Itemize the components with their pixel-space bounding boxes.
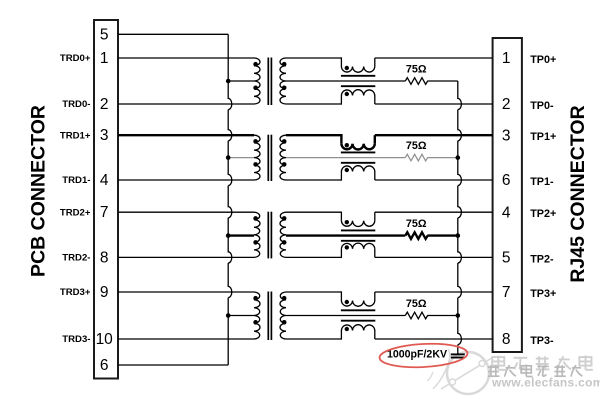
svg-text:6: 6 [100,357,109,374]
svg-text:TRD2-: TRD2- [62,253,90,264]
svg-text:75Ω: 75Ω [406,298,427,310]
svg-text:1: 1 [100,50,109,67]
svg-text:5: 5 [100,26,109,43]
svg-text:9: 9 [100,284,109,301]
svg-text:3: 3 [100,127,109,144]
svg-text:5: 5 [502,250,511,267]
svg-text:8: 8 [502,331,511,348]
svg-text:TRD1-: TRD1- [62,175,90,186]
svg-text:7: 7 [100,204,109,221]
svg-text:TP2+: TP2+ [530,208,556,220]
svg-text:TRD2+: TRD2+ [60,207,91,218]
svg-text:6: 6 [502,172,511,189]
svg-text:www.elecfans.com: www.elecfans.com [491,376,600,390]
svg-text:TP0-: TP0- [530,100,554,112]
svg-text:TRD3-: TRD3- [62,334,90,345]
svg-text:TP0+: TP0+ [530,54,556,66]
svg-text:2: 2 [100,96,109,113]
svg-text:TRD3+: TRD3+ [60,287,91,298]
svg-text:10: 10 [96,331,114,348]
svg-text:TRD0-: TRD0- [62,99,90,110]
svg-text:8: 8 [100,249,109,266]
svg-text:2: 2 [502,96,511,113]
svg-text:3: 3 [502,127,511,144]
svg-text:75Ω: 75Ω [406,140,427,152]
svg-text:PCB CONNECTOR: PCB CONNECTOR [27,105,49,277]
svg-text:TP3-: TP3- [530,335,554,347]
svg-text:1000pF/2KV: 1000pF/2KV [387,348,447,360]
svg-text:4: 4 [100,172,109,189]
svg-text:TP1+: TP1+ [530,131,556,143]
svg-text:7: 7 [502,284,511,301]
svg-text:1: 1 [502,50,511,67]
svg-text:75Ω: 75Ω [406,218,427,230]
svg-text:TRD1+: TRD1+ [60,130,91,141]
svg-text:RJ45 CONNECTOR: RJ45 CONNECTOR [567,105,589,282]
svg-text:TRD0+: TRD0+ [60,53,91,64]
svg-text:TP3+: TP3+ [530,288,556,300]
svg-text:75Ω: 75Ω [406,63,427,75]
svg-text:4: 4 [502,204,511,221]
svg-text:TP2-: TP2- [530,253,554,265]
svg-text:TP1-: TP1- [530,176,554,188]
